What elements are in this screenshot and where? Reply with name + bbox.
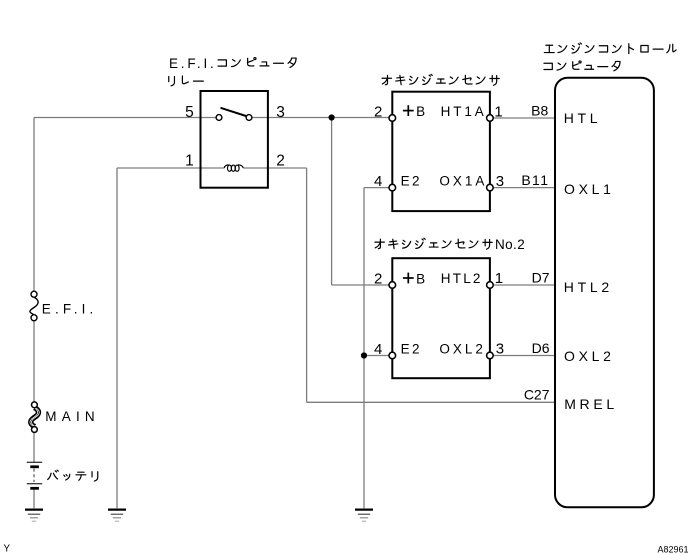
svg-text:B: B (416, 104, 425, 119)
svg-text:2: 2 (276, 153, 285, 170)
svg-text:E2: E2 (401, 173, 422, 188)
svg-text:HTL2: HTL2 (564, 279, 613, 295)
svg-text:HTL: HTL (564, 110, 602, 126)
svg-text:E2: E2 (401, 341, 422, 356)
svg-text:B11: B11 (521, 172, 549, 188)
svg-text:3: 3 (276, 104, 285, 121)
svg-text:E.F.I.: E.F.I. (42, 301, 98, 316)
svg-text:No.2: No.2 (495, 237, 525, 252)
svg-text:HTL2: HTL2 (441, 271, 483, 286)
svg-text:MREL: MREL (564, 396, 618, 412)
svg-text:3: 3 (496, 340, 504, 357)
svg-text:D6: D6 (532, 340, 550, 356)
svg-text:1: 1 (494, 103, 502, 120)
svg-text:C27: C27 (524, 386, 550, 402)
svg-text:E.F.I.: E.F.I. (169, 56, 217, 71)
svg-text:5: 5 (185, 104, 194, 121)
svg-text:D7: D7 (532, 270, 550, 286)
svg-text:HT1A: HT1A (441, 104, 487, 119)
svg-text:OXL2: OXL2 (439, 341, 486, 356)
svg-text:1: 1 (185, 153, 194, 170)
svg-text:2: 2 (374, 271, 382, 288)
svg-text:1: 1 (495, 270, 503, 287)
svg-text:OXL1: OXL1 (564, 181, 615, 197)
svg-text:3: 3 (496, 173, 504, 190)
svg-text:MAIN: MAIN (45, 409, 100, 424)
svg-text:4: 4 (374, 341, 382, 358)
svg-text:B8: B8 (531, 103, 548, 119)
svg-text:OXL2: OXL2 (564, 348, 615, 364)
svg-text:2: 2 (374, 103, 382, 120)
svg-text:4: 4 (374, 173, 382, 190)
svg-text:OX1A: OX1A (439, 173, 487, 188)
svg-text:A82961: A82961 (657, 544, 688, 554)
svg-text:B: B (416, 271, 425, 286)
svg-text:Y: Y (4, 544, 11, 555)
